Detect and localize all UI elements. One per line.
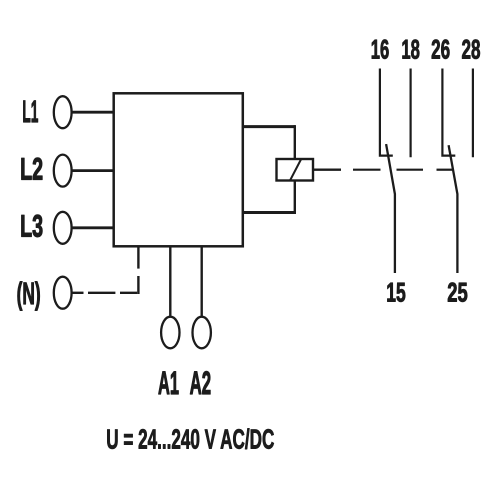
contact arm 25-26 [449, 145, 458, 273]
svg-text:18: 18 [401, 34, 420, 64]
terminal line 18 [410, 69, 412, 158]
wire coil bottom vertical [294, 181, 296, 215]
contact arm 15-16 [386, 144, 395, 273]
svg-text:A1: A1 [158, 365, 179, 401]
relay coil K1 [277, 159, 314, 181]
terminal N [54, 277, 72, 309]
wire coil output [313, 168, 341, 170]
svg-text:L1: L1 [22, 94, 38, 129]
svg-text:L2: L2 [20, 151, 43, 186]
wire L3 [72, 226, 114, 229]
terminal line 16 with contact tick [380, 69, 393, 156]
svg-text:A2: A2 [190, 365, 212, 401]
terminal L2 [54, 155, 72, 187]
mechanical link dashed [353, 169, 453, 171]
device body K1 [114, 93, 243, 246]
svg-text:L3: L3 [20, 208, 43, 243]
wire A2 [200, 246, 202, 317]
terminal line 28 [472, 69, 474, 158]
svg-text:26: 26 [431, 34, 450, 64]
svg-text:(N): (N) [17, 276, 41, 311]
wire L2 [72, 169, 114, 172]
terminal line 26 with contact tick [442, 69, 455, 156]
terminal A1 [161, 317, 179, 349]
terminal A2 [193, 317, 211, 349]
svg-text:15: 15 [386, 278, 406, 308]
wire A1 [169, 246, 171, 317]
terminal L1 [54, 96, 72, 128]
wire N dashed vertical [137, 247, 139, 294]
svg-text:25: 25 [447, 278, 468, 308]
wire coil top [243, 125, 295, 128]
wire L1 [72, 111, 114, 114]
wire N dashed horizontal [72, 292, 138, 294]
wire coil top vertical [294, 125, 296, 159]
svg-text:28: 28 [462, 34, 481, 64]
svg-text:U = 24...240 V AC/DC: U = 24...240 V AC/DC [106, 424, 274, 455]
wire coil bottom [243, 211, 295, 214]
terminal L3 [54, 212, 72, 244]
svg-text:16: 16 [371, 34, 390, 64]
relay coil slash [290, 159, 301, 181]
